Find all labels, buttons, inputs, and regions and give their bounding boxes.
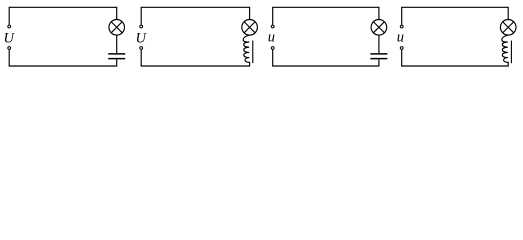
svg-text:u: u <box>397 30 404 46</box>
svg-text:u: u <box>268 30 275 46</box>
svg-text:U: U <box>135 31 147 47</box>
svg-text:U: U <box>3 31 15 47</box>
